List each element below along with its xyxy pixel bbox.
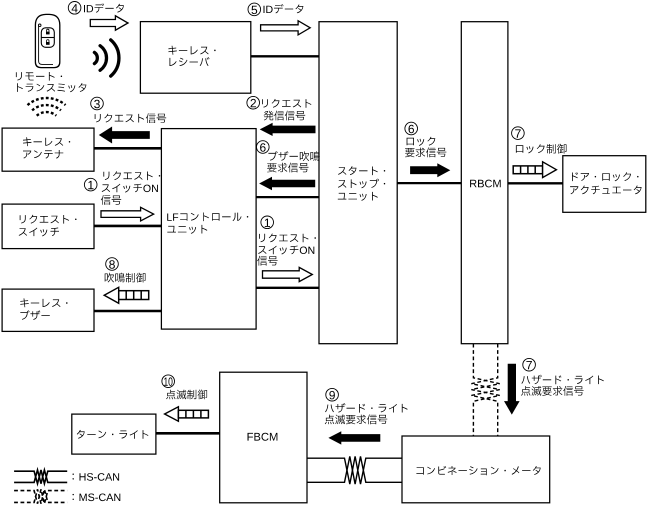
wire: start-stop unit to RBCM <box>397 182 461 184</box>
wire: LF control unit to start-stop unit (lower) <box>256 287 319 289</box>
label 6: buzzer sound request signal <box>257 141 320 173</box>
remote transmitter key-fob icon <box>35 14 59 67</box>
block: RBCM <box>461 22 508 344</box>
label 5: ID data <box>248 3 303 16</box>
block: keyless antenna (キーレス・アンテナ) <box>2 128 94 171</box>
arrow 6: black left arrow (start-stop to LF unit, buzzer request) <box>259 177 315 190</box>
dashed reception waves toward keyless antenna <box>28 98 66 116</box>
label 10: blink control <box>162 375 207 399</box>
arrow 6 (right): black right arrow (start-stop to RBCM) <box>410 163 450 177</box>
block: LF control unit (LFコントロール・ユニット) <box>161 129 256 330</box>
arrow 5: open right arrow (receiver to start-stop unit) <box>261 21 311 35</box>
block: door lock actuator (ドア・ロック・アクチュエータ) <box>563 156 646 213</box>
legend label: HS-CAN <box>73 473 120 481</box>
label 8: buzzer sounding control <box>105 258 146 283</box>
label 2: request send signal <box>247 96 312 120</box>
label 1 (right): request switch ON signal <box>257 216 316 266</box>
radio wave symbol (transmit) <box>94 40 119 76</box>
wire: MS-CAN twisted pair (dashed), RBCM to combination meter <box>471 344 499 436</box>
wire: keyless antenna to LF control unit <box>94 147 161 150</box>
label 7 (right): lock control <box>512 127 567 154</box>
label 7 (bottom): hazard light blink request signal <box>521 358 604 395</box>
legend: MS-CAN symbol (dashed) <box>14 489 67 503</box>
wire: RBCM to door lock actuator <box>508 182 563 184</box>
arrow 1 (left): open right arrow (request switch to LF unit) <box>101 207 154 221</box>
legend: HS-CAN symbol <box>14 470 67 484</box>
block: start-stop unit (スタート・ストップ・ユニット) <box>319 22 397 344</box>
block: combination meter (コンビネーション・メータ) <box>402 436 550 503</box>
block: turn light (ターン・ライト) <box>72 414 156 454</box>
label 6 (right): lock request signal <box>405 122 446 157</box>
arrow 1 (right): open right arrow (LF unit to start-stop unit) <box>263 267 313 281</box>
wire: LF control unit to start-stop unit (upper) <box>256 196 319 198</box>
label 9: hazard light blink request signal <box>325 388 408 424</box>
arrow 3: black left arrow (LF unit to keyless antenna) <box>99 127 150 144</box>
block: keyless receiver (キーレス・レシーバ) <box>140 22 250 94</box>
block: keyless buzzer (キーレス・ブザー) <box>2 289 94 331</box>
arrow 2: black left arrow (start-stop to LF unit) <box>260 123 316 136</box>
label 3: request signal <box>91 97 167 123</box>
wire: HS-CAN twisted pair, FBCM to combination meter <box>307 456 402 484</box>
arrow 10: open left arrowhead with squares (FBCM to turn light) <box>165 407 209 421</box>
arrow 7 (bottom): black down arrow (RBCM to combination meter) <box>504 364 520 415</box>
wire: turn light to FBCM <box>156 432 220 435</box>
arrow 8: open left arrowhead with squares (LF unit to buzzer) <box>104 287 149 303</box>
block: request switch (リクエスト・スイッチ) <box>2 204 94 249</box>
arrow 7 (right): squares with open right arrowhead (RBCM to door lock actuator) <box>513 162 556 178</box>
block: FBCM <box>220 372 307 503</box>
wire: keyless receiver to start-stop unit <box>251 55 319 57</box>
wire: request switch to LF control unit <box>94 225 161 228</box>
label: remote transmitter <box>16 72 87 92</box>
label 4: ID data <box>68 2 124 15</box>
legend label: MS-CAN <box>73 494 121 502</box>
arrow 4: open right arrow (ID data to receiver) <box>90 16 128 30</box>
arrow 9: black left arrow (combination meter to FBCM) <box>328 431 380 444</box>
wire: keyless buzzer to LF control unit <box>94 310 161 313</box>
label 1 (left): request switch ON signal <box>84 171 160 205</box>
